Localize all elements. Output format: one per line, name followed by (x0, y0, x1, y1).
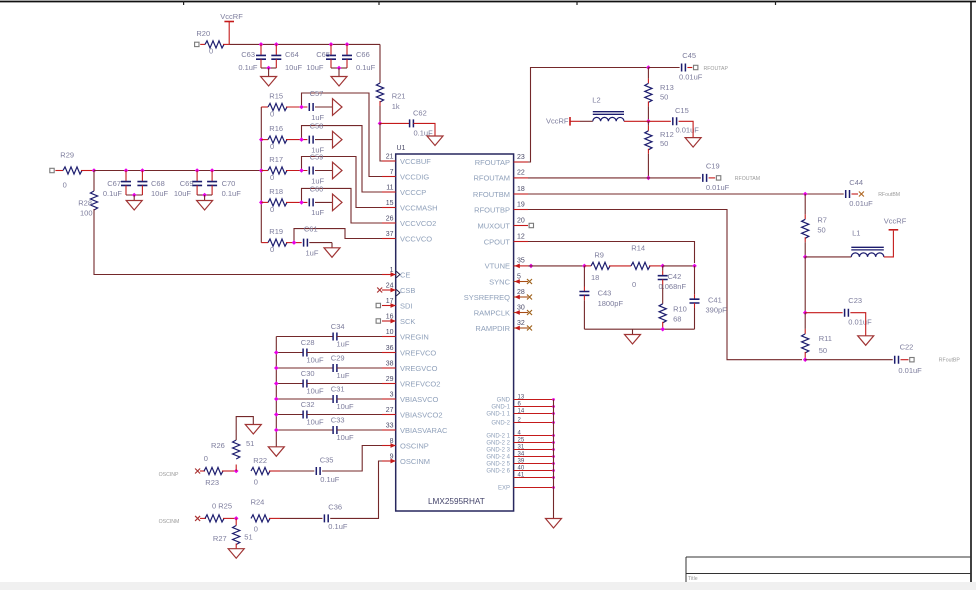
svg-text:C44: C44 (849, 178, 863, 187)
svg-text:50: 50 (819, 346, 827, 355)
svg-text:C58: C58 (310, 122, 324, 131)
svg-text:0: 0 (270, 205, 274, 214)
svg-text:0 R25: 0 R25 (212, 502, 232, 511)
pin 8 OSCINP (382, 438, 429, 450)
wire R23 to node (222, 470, 236, 472)
svg-text:R18: R18 (269, 187, 283, 196)
svg-text:100: 100 (80, 209, 93, 218)
wire RFOUTBM net (528, 193, 844, 195)
pin 39 GND-2 5 (486, 458, 555, 467)
svg-text:0.01uF: 0.01uF (898, 366, 922, 375)
svg-text:CE: CE (400, 270, 410, 279)
svg-text:0.01uF: 0.01uF (676, 125, 700, 134)
node C63 top (259, 42, 264, 47)
svg-text:10uF: 10uF (307, 356, 325, 365)
terminal RFOUTBP (910, 358, 961, 364)
resistor R17 0 (268, 155, 287, 182)
wire R21 to node (379, 101, 381, 123)
power VccRF (top) (220, 12, 243, 45)
capacitor C35 (316, 456, 339, 484)
ground (C23) (858, 336, 874, 346)
svg-text:U1: U1 (397, 145, 406, 152)
wire R28 to CE (94, 209, 383, 275)
svg-text:50: 50 (660, 93, 668, 102)
wire R12 top lead (647, 121, 649, 131)
pin 22 RFOUTAM (473, 170, 528, 183)
wire bypass rail (275, 337, 277, 447)
clock mark CE (396, 271, 400, 277)
svg-text:10uF: 10uF (285, 63, 303, 72)
power VccRF (L1) (884, 216, 907, 230)
port triangle C60 (333, 194, 343, 211)
svg-text:50: 50 (660, 139, 668, 148)
pin 24 CSB (377, 283, 415, 295)
ground (C63/C64) (261, 68, 277, 86)
capacitor C22 (895, 343, 922, 376)
wire loop filter bottom (584, 328, 694, 330)
wire C36 to pin9 (330, 461, 382, 518)
svg-text:0.068nF: 0.068nF (659, 282, 687, 291)
wire GND bus (553, 400, 555, 519)
svg-text:C59: C59 (310, 153, 324, 162)
inductor L2 (592, 95, 624, 121)
port triangle C58 (333, 131, 343, 148)
capacitor C23 (845, 296, 872, 326)
wire node to pin21 (380, 123, 382, 161)
svg-text:31: 31 (518, 444, 525, 450)
node C67 top (124, 168, 129, 173)
svg-text:10uF: 10uF (307, 387, 325, 396)
ground (R26) (245, 425, 261, 435)
pin 9 OSCINM (382, 454, 430, 466)
svg-text:C65: C65 (316, 50, 330, 59)
wire R11 to bottom (804, 352, 806, 360)
pin 7 VCCDIG (382, 169, 429, 181)
wire C45 to terminal (687, 67, 692, 69)
pin 14 GND-1 1 (486, 408, 555, 417)
wire R10 to bottom (662, 322, 664, 329)
resistor R9 18 (591, 250, 610, 282)
node C67/C68 join (132, 193, 137, 198)
resistor R7 50 (802, 216, 827, 239)
pin 33 VBIASVARAC (382, 423, 448, 435)
svg-text:C43: C43 (598, 289, 612, 298)
resistor R21 1k (376, 83, 405, 111)
capacitor C41 390pF (690, 266, 728, 329)
pin 35 VTUNE (485, 258, 528, 271)
pin 30 RAMPCLK (474, 304, 532, 317)
wire R9 to R14 (609, 265, 631, 267)
wire C63/C64 join (261, 67, 276, 69)
capacitor C65 (306, 44, 336, 72)
svg-text:0.1uF: 0.1uF (238, 63, 258, 72)
wire R16 node to pin (302, 126, 384, 192)
wire R11 top lead (804, 313, 806, 334)
pin 19 RFOUTBP (474, 201, 528, 214)
wire R25 to node (223, 517, 236, 519)
node C23/R11 (803, 310, 808, 315)
ground (GND bus) (546, 519, 562, 529)
svg-text:0: 0 (270, 110, 274, 119)
svg-text:R17: R17 (269, 155, 283, 164)
capacitor C61 1uF (304, 225, 319, 258)
wire R7 top lead (804, 194, 806, 219)
svg-text:0.1uF: 0.1uF (356, 63, 376, 72)
capacitor C31 10uF (276, 385, 382, 412)
wire C57 out (315, 106, 333, 108)
svg-text:RAMPCLK: RAMPCLK (474, 308, 510, 317)
pin 36 VREFVCO (382, 345, 436, 357)
svg-text:C36: C36 (328, 503, 342, 512)
pin 18 RFOUTBM (473, 186, 528, 199)
wire C58 out (315, 139, 333, 141)
capacitor C15 (673, 106, 699, 134)
wire R13 to L2 node (647, 101, 649, 121)
svg-text:17: 17 (386, 298, 394, 305)
op-amp U1 body (LMX2595RHAT) (396, 145, 514, 511)
svg-text:R7: R7 (817, 216, 827, 225)
resistor R28 100 (78, 191, 97, 218)
no-connect X (C44) (859, 192, 900, 198)
svg-text:0: 0 (632, 280, 636, 289)
svg-text:VREGIN: VREGIN (400, 332, 429, 341)
svg-text:RFoutBM: RFoutBM (878, 192, 900, 198)
node C66 top (345, 42, 350, 47)
svg-text:1uF: 1uF (311, 208, 324, 217)
svg-text:34: 34 (518, 451, 525, 457)
wire R18 to C60 (286, 201, 307, 203)
svg-text:GND-2 6: GND-2 6 (486, 469, 510, 475)
wire to R9 (584, 265, 591, 267)
svg-text:VBIASVCO2: VBIASVCO2 (400, 410, 443, 419)
svg-text:32: 32 (517, 320, 525, 327)
svg-text:C28: C28 (301, 338, 315, 347)
resistor R29 (60, 151, 82, 190)
svg-text:RFOUTBM: RFOUTBM (473, 190, 510, 199)
svg-text:51: 51 (244, 533, 252, 542)
svg-text:39: 39 (518, 458, 525, 464)
svg-text:1uF: 1uF (337, 371, 350, 380)
wire bottom net to C22 (805, 359, 893, 361)
svg-text:R9: R9 (594, 250, 604, 259)
pin 27 VBIASVCO2 (382, 407, 443, 419)
svg-text:GND-2 4: GND-2 4 (486, 455, 510, 461)
resistor R14 0 (631, 243, 650, 289)
svg-text:VREGVCO: VREGVCO (400, 364, 438, 373)
wire left rail (94, 170, 261, 172)
svg-text:RFOUTBP: RFOUTBP (474, 205, 510, 214)
svg-text:C32: C32 (301, 400, 315, 409)
node C63/C64 join (266, 66, 271, 71)
svg-text:0.01uF: 0.01uF (706, 183, 730, 192)
svg-text:C69: C69 (180, 179, 194, 188)
svg-text:C41: C41 (708, 295, 722, 304)
wire C65/C66 join (331, 67, 347, 69)
svg-text:VCCMASH: VCCMASH (400, 203, 438, 212)
resistor R19 0 (268, 227, 287, 254)
svg-text:VTUNE: VTUNE (485, 262, 510, 271)
svg-text:R11: R11 (819, 334, 832, 343)
node C65 top (329, 42, 334, 47)
capacitor C67 (103, 171, 131, 199)
capacitor C29 1uF (276, 354, 382, 381)
svg-text:18: 18 (517, 186, 525, 193)
capacitor C64 (271, 44, 302, 72)
svg-text:GND-2: GND-2 (491, 421, 510, 427)
svg-text:R14: R14 (631, 243, 645, 252)
capacitor C42 0.068nF (658, 266, 687, 304)
svg-text:C63: C63 (241, 50, 255, 59)
svg-text:0: 0 (270, 173, 274, 182)
node rail C30 (274, 381, 279, 386)
title block (686, 557, 971, 582)
svg-text:7: 7 (390, 169, 394, 176)
svg-text:0: 0 (204, 454, 208, 463)
svg-text:10: 10 (386, 329, 394, 336)
node rail C32 (274, 412, 279, 417)
svg-text:23: 23 (517, 154, 525, 161)
wire rail to R16 (261, 139, 268, 141)
wire C23 to ground (850, 313, 865, 336)
svg-text:LMX2595RHAT: LMX2595RHAT (428, 497, 485, 506)
wire C19 to terminal (709, 177, 716, 179)
node RFOUTBM/R7 (803, 192, 808, 197)
capacitor C28 10uF (276, 338, 382, 365)
wire RFOUTBP net (528, 210, 802, 360)
svg-text:0.1uF: 0.1uF (328, 522, 348, 531)
capacitor C69 (174, 171, 202, 199)
node R17/C59 (299, 168, 304, 173)
pin 6 GND-1 (491, 401, 555, 410)
pin 4 GND-2 1 (486, 430, 555, 439)
svg-text:10uF: 10uF (307, 418, 325, 427)
pin 20 MUXOUT (478, 217, 534, 230)
page top border (0, 1, 976, 3)
svg-text:MUXOUT: MUXOUT (478, 221, 511, 230)
port triangle C59 (333, 162, 343, 179)
svg-text:10uF: 10uF (337, 402, 355, 411)
svg-text:GND-1 1: GND-1 1 (486, 412, 510, 418)
pin 26 VCCVCO2 (382, 216, 436, 228)
svg-text:1uF: 1uF (311, 113, 324, 122)
resistor R12 50 (645, 130, 674, 150)
svg-text:3: 3 (390, 392, 394, 399)
capacitor C57 1uF (309, 89, 324, 122)
wire R17 node to pin (302, 157, 384, 208)
capacitor C45 (679, 51, 703, 81)
svg-text:C66: C66 (356, 50, 370, 59)
wire R19 to C61 (286, 242, 302, 244)
svg-text:R16: R16 (269, 124, 283, 133)
node C70 top (210, 168, 215, 173)
page right border (970, 2, 972, 583)
svg-text:VCCDIG: VCCDIG (400, 172, 429, 181)
pin 11 VCCCP (382, 185, 426, 197)
wire C59 out (315, 170, 333, 172)
svg-text:R22: R22 (253, 456, 267, 465)
ground (C67/C68) (126, 195, 142, 210)
svg-text:R24: R24 (251, 498, 265, 507)
wire R19 node to pin (294, 229, 383, 243)
wire rail to C45 (648, 67, 679, 69)
svg-text:SYSREFREQ: SYSREFREQ (464, 293, 510, 302)
power VccRF (L2) (546, 116, 580, 125)
capacitor C58 1uF (309, 122, 324, 155)
svg-text:RFOUTAM: RFOUTAM (473, 174, 510, 183)
ground (C69/C70) (197, 195, 213, 210)
wire C44 out (852, 193, 859, 195)
wire X to R23 (200, 470, 205, 472)
node C68 top (140, 168, 145, 173)
svg-text:25: 25 (518, 437, 525, 443)
clock mark CSB (396, 290, 400, 296)
resistor R24 0 (251, 498, 270, 534)
pin EXP pad EXP (498, 486, 555, 492)
svg-text:R12: R12 (660, 130, 674, 139)
node OSCINM junction (234, 516, 239, 521)
svg-text:14: 14 (518, 408, 525, 414)
svg-text:CPOUT: CPOUT (484, 237, 511, 246)
svg-text:VccRF: VccRF (546, 116, 569, 125)
svg-text:40: 40 (518, 465, 525, 471)
resistor R22 0 (251, 456, 270, 487)
svg-text:37: 37 (386, 231, 394, 238)
pin 40 GND-2 6 (486, 465, 555, 474)
svg-text:38: 38 (386, 361, 394, 368)
svg-text:RFOUTAP: RFOUTAP (475, 158, 510, 167)
wire R17 to C59 (286, 170, 307, 172)
svg-text:RFOUTAP: RFOUTAP (704, 66, 729, 72)
node R19/C61 (292, 240, 297, 245)
svg-text:0.1uF: 0.1uF (103, 189, 123, 198)
node rail C28 (274, 350, 279, 355)
capacitor C19 (703, 162, 730, 192)
pin 12 CPOUT (484, 233, 528, 246)
ground (C62) (427, 136, 443, 146)
pin 10 VREGIN (382, 329, 429, 341)
svg-text:C33: C33 (331, 416, 345, 425)
wire R14 to C42 node (649, 265, 663, 267)
svg-text:29: 29 (386, 376, 394, 383)
node C69/C70 join (202, 193, 207, 198)
svg-text:VBIASVCO: VBIASVCO (400, 395, 439, 404)
node R18/C60 (299, 200, 304, 205)
svg-text:C22: C22 (900, 343, 914, 352)
svg-text:C34: C34 (331, 322, 345, 331)
svg-text:41: 41 (518, 472, 525, 478)
svg-text:1uF: 1uF (337, 340, 350, 349)
node CPOUT/R14 (692, 264, 697, 269)
wire node to C23 (805, 312, 842, 314)
wire X to R25 (200, 517, 206, 519)
svg-text:51: 51 (246, 439, 254, 448)
svg-text:0: 0 (254, 478, 258, 487)
svg-text:C35: C35 (320, 456, 334, 465)
svg-text:VccRF: VccRF (220, 12, 243, 21)
svg-text:RAMPDIR: RAMPDIR (475, 324, 510, 333)
svg-text:SCK: SCK (400, 317, 415, 326)
svg-text:RFoutBP: RFoutBP (939, 358, 961, 364)
pin 37 VCCVCO (382, 231, 432, 243)
svg-text:C60: C60 (310, 184, 324, 193)
svg-text:C23: C23 (848, 296, 862, 305)
svg-text:22: 22 (517, 170, 525, 177)
wire C69/C70 join (197, 194, 212, 196)
node VTUNE (529, 264, 534, 269)
wire node to C15 (648, 120, 670, 122)
svg-text:VCCVCO2: VCCVCO2 (400, 219, 436, 228)
svg-text:390pF: 390pF (706, 306, 728, 315)
pin 28 SYSREFREQ (464, 289, 532, 302)
svg-text:C15: C15 (675, 106, 689, 115)
capacitor C30 10uF (276, 369, 382, 396)
svg-text:21: 21 (386, 154, 394, 161)
node rail C29 (274, 366, 279, 371)
node OSCINP junction (234, 469, 239, 474)
wire node to L1 (805, 256, 851, 258)
node rail R18 (259, 200, 264, 205)
svg-text:13: 13 (518, 394, 525, 400)
svg-text:18: 18 (591, 273, 599, 282)
capacitor C68 (137, 171, 168, 199)
no-connect X (OSCINM) (195, 516, 200, 521)
svg-text:OSCINM: OSCINM (400, 457, 430, 466)
wire node to C62 (380, 122, 410, 124)
wire L1 to VccRF (884, 231, 894, 257)
svg-text:11: 11 (386, 185, 393, 192)
wire VTUNE to R9 (528, 265, 583, 267)
svg-text:50: 50 (817, 225, 825, 234)
wire R7 rail to C23 node (804, 257, 806, 313)
terminal (R29 input) (50, 168, 54, 172)
svg-text:10uF: 10uF (337, 433, 355, 442)
svg-text:1uF: 1uF (306, 248, 319, 257)
svg-text:GND-2 1: GND-2 1 (486, 434, 510, 440)
svg-text:R19: R19 (269, 227, 283, 236)
wire C67/C68 join (126, 194, 142, 196)
wire C42 node to CPOUT node (663, 265, 695, 267)
wire terminal to R29 (55, 170, 63, 172)
wire R15 to C57 (286, 106, 307, 108)
svg-text:VCCBUF: VCCBUF (400, 157, 431, 166)
pin 5 SYNC (489, 273, 532, 286)
svg-text:OSCINP: OSCINP (400, 441, 429, 450)
resistor R11 50 (802, 334, 832, 355)
node rail C31 (274, 397, 279, 402)
pin 25 GND-2 2 (486, 437, 555, 446)
svg-text:12: 12 (517, 233, 525, 240)
ground (C65/C66) (331, 68, 347, 86)
svg-text:C64: C64 (285, 50, 299, 59)
capacitor C36 (324, 503, 347, 532)
svg-text:R13: R13 (660, 83, 674, 92)
node C42 top (660, 264, 665, 269)
svg-text:0.01uF: 0.01uF (849, 199, 873, 208)
svg-text:VREFVCO2: VREFVCO2 (400, 379, 440, 388)
node RFOUTBP/R11 (803, 357, 808, 362)
pin 17 SDI (376, 298, 412, 310)
wire R26 bottom lead (235, 465, 237, 472)
wire RFOUTAM net (528, 177, 701, 179)
svg-text:R29: R29 (60, 151, 74, 160)
resistor R15 0 (268, 92, 287, 119)
resistor R16 0 (268, 124, 287, 151)
svg-text:VCCCP: VCCCP (400, 188, 426, 197)
wire R18 node to pin (302, 188, 384, 223)
node rail C33 (274, 428, 279, 433)
capacitor C44 (846, 178, 873, 208)
svg-text:5: 5 (517, 273, 521, 280)
